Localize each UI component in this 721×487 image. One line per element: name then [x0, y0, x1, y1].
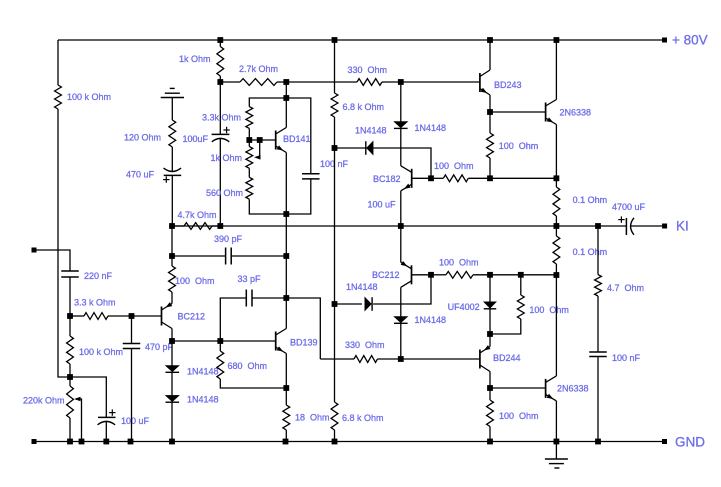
wire UF4002 to node AG [489, 309, 491, 334]
resistor 100 Ohm emitter Q1 [171, 256, 173, 266]
wire BD243 collector [489, 40, 491, 70]
resistor 2.7k Ohm [220, 81, 240, 83]
wire Q9 emitter down [555, 401, 557, 442]
node input stub terminal [32, 248, 37, 253]
wire D1 to BC182 collector [400, 128, 402, 165]
svg-text:100 Ohm: 100 Ohm [529, 305, 569, 315]
diode D4 1N4148 vertical [394, 317, 408, 323]
node H junction [169, 338, 175, 344]
wire AF to BD244 base [401, 358, 480, 360]
capacitor 100 nF vbe [302, 173, 320, 175]
wire 560 to node O [249, 199, 286, 214]
terminal KI [662, 224, 667, 229]
wire 470uF to node D [171, 175, 173, 226]
svg-text:6.8 k Ohm: 6.8 k Ohm [343, 102, 385, 112]
node rail junction 100 low [487, 439, 493, 445]
svg-text:BC212: BC212 [372, 270, 400, 280]
diode D5 UF4002 [489, 275, 491, 302]
wire left rail vertical upper [57, 40, 59, 85]
svg-text:100 k Ohm: 100 k Ohm [67, 92, 111, 102]
svg-text:470 uF: 470 uF [126, 170, 155, 180]
capacitor 33 pF [245, 290, 247, 307]
node AD junction [518, 272, 524, 278]
node top rail junction BD243 [487, 37, 493, 43]
wire bottom GND rail [34, 441, 665, 443]
svg-text:100 Ohm: 100 Ohm [499, 411, 539, 421]
wiper 220k [76, 399, 82, 442]
potentiometer 1k Ohm [248, 140, 250, 147]
wire node P down to BD139 collector [285, 298, 287, 329]
node rail junction 100uF [103, 439, 109, 445]
wire pot to 560 [248, 168, 250, 177]
resistor 100k Ohm second [69, 316, 71, 336]
resistor 120 Ohm [169, 120, 176, 147]
wire 100nF to rail [597, 357, 599, 442]
node AB junction base Q7 [428, 272, 434, 278]
capacitor 100uF electrolytic input [219, 82, 221, 134]
potentiometer 220k Ohm [69, 377, 71, 386]
node X junction [554, 175, 560, 181]
node rail junction 6.8k [332, 439, 338, 445]
terminal rail left end [32, 439, 37, 444]
svg-text:33 pF: 33 pF [238, 274, 262, 284]
svg-text:BD244: BD244 [493, 353, 521, 363]
node P junction [283, 295, 289, 301]
wire 4700uF to KI terminal [631, 225, 665, 227]
capacitor 100uF electrolytic bottom-left [109, 412, 115, 414]
capacitor 470 uF electrolytic [164, 168, 182, 171]
node U junction KI line [398, 223, 404, 229]
resistor 0.1 Ohm lower [555, 226, 557, 236]
wire +80V down to 6.8k [334, 40, 336, 93]
svg-text:2N6338: 2N6338 [557, 384, 589, 394]
node W junction [487, 109, 493, 115]
svg-text:2N6338: 2N6338 [560, 108, 592, 118]
svg-text:2.7k Ohm: 2.7k Ohm [239, 64, 278, 74]
terminal +80V [662, 38, 667, 43]
resistor 330 Ohm upper [286, 81, 357, 83]
svg-text:100 Ohm: 100 Ohm [434, 161, 474, 171]
svg-text:BC212: BC212 [178, 312, 206, 322]
diode D6 1N4148 [171, 341, 173, 366]
wire node W to 2N6338 base [490, 111, 546, 113]
node rail junction 100nF [595, 439, 601, 445]
node rail junction diodes [169, 439, 175, 445]
svg-text:BD139: BD139 [290, 338, 318, 348]
svg-text:100 Ohm: 100 Ohm [499, 141, 539, 151]
wire BC182 base [412, 177, 431, 179]
svg-text:KI: KI [676, 219, 689, 234]
node K junction [283, 79, 289, 85]
transistor Q8 BD244 pnp [479, 350, 481, 369]
transistor Q6 2N6338 npn [545, 103, 547, 122]
svg-text:330 Ohm: 330 Ohm [348, 65, 388, 75]
wire AH to 2N6338b base [490, 387, 546, 389]
wire BD139 emitter down [285, 354, 287, 389]
svg-text:100 uF: 100 uF [121, 416, 150, 426]
node O junction [283, 211, 289, 217]
resistor 3.3k Ohm horizontal [70, 315, 84, 317]
node AA junction [554, 272, 560, 278]
wire D7 to rail [171, 402, 173, 441]
wire node O down through KI line [285, 214, 287, 256]
svg-text:1N4148: 1N4148 [346, 282, 378, 292]
svg-text:1N4148: 1N4148 [187, 367, 219, 377]
wire 470pF to rail [131, 349, 133, 442]
node Y junction KI [554, 223, 560, 229]
resistor 6.8k Ohm lower [331, 402, 338, 430]
node junction B [129, 313, 135, 319]
svg-text:4.7k Ohm: 4.7k Ohm [178, 210, 217, 220]
node Q junction [283, 385, 289, 391]
node N junction wiper [257, 137, 263, 143]
svg-text:100 Ohm: 100 Ohm [175, 276, 215, 286]
wire 120 Ohm to 470uF [171, 147, 173, 171]
svg-text:680 Ohm: 680 Ohm [228, 361, 268, 371]
wire node C to cap [70, 377, 106, 417]
svg-text:GND: GND [675, 435, 705, 450]
wire 2N6338 collector [555, 40, 557, 100]
svg-text:+ 80V: + 80V [672, 33, 708, 48]
node D junction [169, 223, 175, 229]
resistor 100 Ohm BC182 base [431, 177, 443, 179]
node E junction [217, 223, 223, 229]
transistor Q4 BC182 npn mirrored [411, 169, 413, 188]
svg-text:1N4148: 1N4148 [415, 315, 447, 325]
wire 4.7 Ohm to 100nF [597, 296, 599, 352]
wire 220nF to node [69, 277, 71, 316]
wire 100nF bottom to node O [286, 179, 311, 214]
wire 100uF to node E [219, 139, 221, 226]
wire left rail vertical lower [58, 109, 70, 377]
node AF junction [398, 356, 404, 362]
svg-text:BD141: BD141 [283, 134, 311, 144]
wire D3 anode to node R line [335, 303, 363, 305]
transistor Q9 2N6338 npn lower [545, 379, 547, 398]
diode D1 1N4148 vertical [400, 82, 402, 122]
node top rail junction 1k [217, 37, 223, 43]
svg-text:100 uF: 100 uF [368, 200, 397, 210]
node S junction [398, 79, 404, 85]
svg-text:3.3k Ohm: 3.3k Ohm [202, 113, 241, 123]
capacitor 220nF [61, 270, 79, 272]
wire Q9 collector up [555, 275, 557, 376]
resistor 18 Ohm [285, 388, 287, 405]
node AC junction [487, 272, 493, 278]
node AE junction [332, 301, 338, 307]
resistor 0.1 Ohm upper [555, 178, 557, 187]
svg-text:100uF: 100uF [183, 134, 209, 144]
node R junction [332, 145, 338, 151]
diode D3 1N4148 horizontal [365, 297, 372, 311]
svg-text:560 Ohm: 560 Ohm [206, 188, 243, 198]
node G junction [283, 253, 289, 259]
wire BD141 emitter [285, 153, 287, 215]
svg-text:0.1 Ohm: 0.1 Ohm [573, 195, 608, 205]
svg-text:100 k Ohm: 100 k Ohm [79, 347, 123, 357]
wire node AE down to 330 [334, 304, 336, 402]
svg-text:0.1 Ohm: 0.1 Ohm [573, 247, 608, 257]
wiper 1k pot [256, 140, 260, 157]
node Z junction 4.7 branch [595, 223, 601, 229]
wire 6.8k to node R [334, 117, 336, 148]
wire cap to rail [105, 422, 107, 442]
node rail 18 Ohm [283, 439, 289, 445]
wire BC182 emitter down [400, 191, 402, 226]
diode D7 1N4148 [166, 395, 180, 401]
svg-text:120 Ohm: 120 Ohm [124, 133, 161, 143]
svg-text:100 Ohm: 100 Ohm [439, 258, 479, 268]
wire 33pF left branch [220, 298, 246, 341]
svg-text:6.8 k Ohm: 6.8 k Ohm [342, 413, 384, 423]
svg-text:4.7 Ohm: 4.7 Ohm [607, 283, 644, 293]
resistor 100 Ohm vertical mid [520, 275, 522, 295]
wire base BC212 Q1 [132, 315, 162, 317]
resistor 4.7k Ohm [172, 225, 184, 227]
transistor Q3 BD139 npn [275, 332, 277, 351]
node junction A [67, 313, 73, 319]
node rail junction 470pF [128, 439, 134, 445]
node J junction [217, 79, 223, 85]
resistor 560 Ohm [246, 177, 253, 199]
wire KI line right [556, 225, 626, 227]
node top rail junction 330 [332, 37, 338, 43]
svg-text:3.3 k Ohm: 3.3 k Ohm [74, 298, 116, 308]
svg-text:100 nF: 100 nF [612, 353, 641, 363]
wire node K down [285, 82, 287, 98]
node I junction [217, 338, 223, 344]
wire node D down [171, 226, 173, 256]
resistor 330 Ohm lower [320, 358, 354, 360]
resistor R 100k left [55, 85, 62, 109]
svg-text:1k Ohm: 1k Ohm [179, 54, 211, 64]
wire D6 to D7 [171, 372, 173, 395]
svg-text:1N4148: 1N4148 [355, 126, 387, 136]
svg-text:220k Ohm: 220k Ohm [23, 396, 65, 406]
svg-text:UF4002: UF4002 [448, 302, 480, 312]
node AH junction [487, 385, 493, 391]
svg-text:4700 uF: 4700 uF [612, 202, 646, 212]
wire base stub down [373, 275, 431, 304]
svg-text:1N4148: 1N4148 [415, 123, 447, 133]
ground symbol bottom [555, 442, 557, 460]
wire node P to 33pF corner [286, 298, 320, 359]
wire input stub [34, 250, 70, 271]
wire 33pF right [252, 297, 286, 299]
wire 470pF branch [131, 316, 133, 344]
transistor Q5 BD243 npn [479, 73, 481, 92]
wire node G down [285, 256, 287, 298]
node junction C [67, 374, 73, 380]
wire 275 line right [490, 274, 556, 276]
capacitor 390 pF [225, 248, 227, 265]
wire 100 Ohm line to 0.1 top [490, 177, 556, 179]
svg-text:BC182: BC182 [373, 174, 401, 184]
svg-text:BD243: BD243 [494, 80, 522, 90]
svg-text:220 nF: 220 nF [84, 271, 113, 281]
wire 2N6338 emitter [555, 125, 557, 179]
transistor Q2 BD141 npn [275, 131, 277, 150]
wire BD141 collector [285, 98, 287, 128]
wire y82 line to BD243 base [401, 81, 480, 83]
resistor 1k Ohm [219, 40, 221, 47]
svg-text:390 pF: 390 pF [214, 234, 243, 244]
node T junction BC182 base [428, 175, 434, 181]
wire base BD141 [249, 139, 275, 141]
wire Q7 emitter up [400, 226, 402, 262]
wire Q1 collector line to BD139 base [172, 340, 276, 342]
wire node L left [249, 98, 286, 107]
diode D2 1N4148 horizontal [335, 147, 367, 149]
ground symbol inverted top [170, 87, 175, 89]
wire BD243 emitter [489, 95, 491, 112]
node L junction [283, 95, 289, 101]
node M junction [246, 137, 252, 143]
wire Q7 collector down [400, 287, 402, 316]
resistor 3.3k Ohm vbe [246, 107, 253, 129]
capacitor 4700 uF electrolytic [618, 219, 624, 221]
capacitor 470 pF [123, 343, 141, 345]
transistor Q7 BC212 pnp mirrored [411, 265, 413, 284]
node V junction [487, 175, 493, 181]
transistor Q1 BC212 pnp [161, 307, 163, 326]
node rail junction wiper [79, 439, 85, 445]
wire node L right to 100nF [286, 98, 311, 174]
svg-text:18 Ohm: 18 Ohm [295, 413, 330, 423]
wire BD244 emitter up [489, 334, 491, 347]
svg-text:330 Ohm: 330 Ohm [345, 340, 385, 350]
wire 390pF line left [172, 255, 226, 257]
resistor 6.8k Ohm upper [331, 93, 338, 117]
node rail junction 220k [67, 439, 73, 445]
wire D4 to node AF [400, 323, 402, 359]
svg-text:1N4148: 1N4148 [187, 395, 219, 405]
wire Q7 base [412, 274, 432, 276]
wire 390pF line right [231, 255, 286, 257]
terminal GND [662, 439, 667, 444]
wire KI line [172, 225, 556, 227]
wire top +80V rail [58, 39, 665, 41]
svg-text:1k Ohm: 1k Ohm [211, 153, 243, 163]
wire BD244 collector down [489, 372, 491, 389]
resistor 4.7 Ohm [597, 226, 599, 275]
resistor 680 Ohm [219, 341, 221, 351]
node top rail junction 2N6338 [554, 37, 560, 43]
node rail junction Q9 [554, 439, 560, 445]
resistor 100 Ohm output low [489, 388, 491, 400]
wire node R to node AE [334, 148, 336, 304]
wire Q1 collector down [171, 329, 173, 342]
wire D2 anode to corner [373, 148, 431, 178]
node AG junction [487, 331, 493, 337]
node F junction [169, 253, 175, 259]
resistor 100 Ohm driver [489, 112, 491, 133]
resistor 100 Ohm Q7 base [431, 274, 446, 276]
capacitor 100 nF output [589, 351, 607, 353]
